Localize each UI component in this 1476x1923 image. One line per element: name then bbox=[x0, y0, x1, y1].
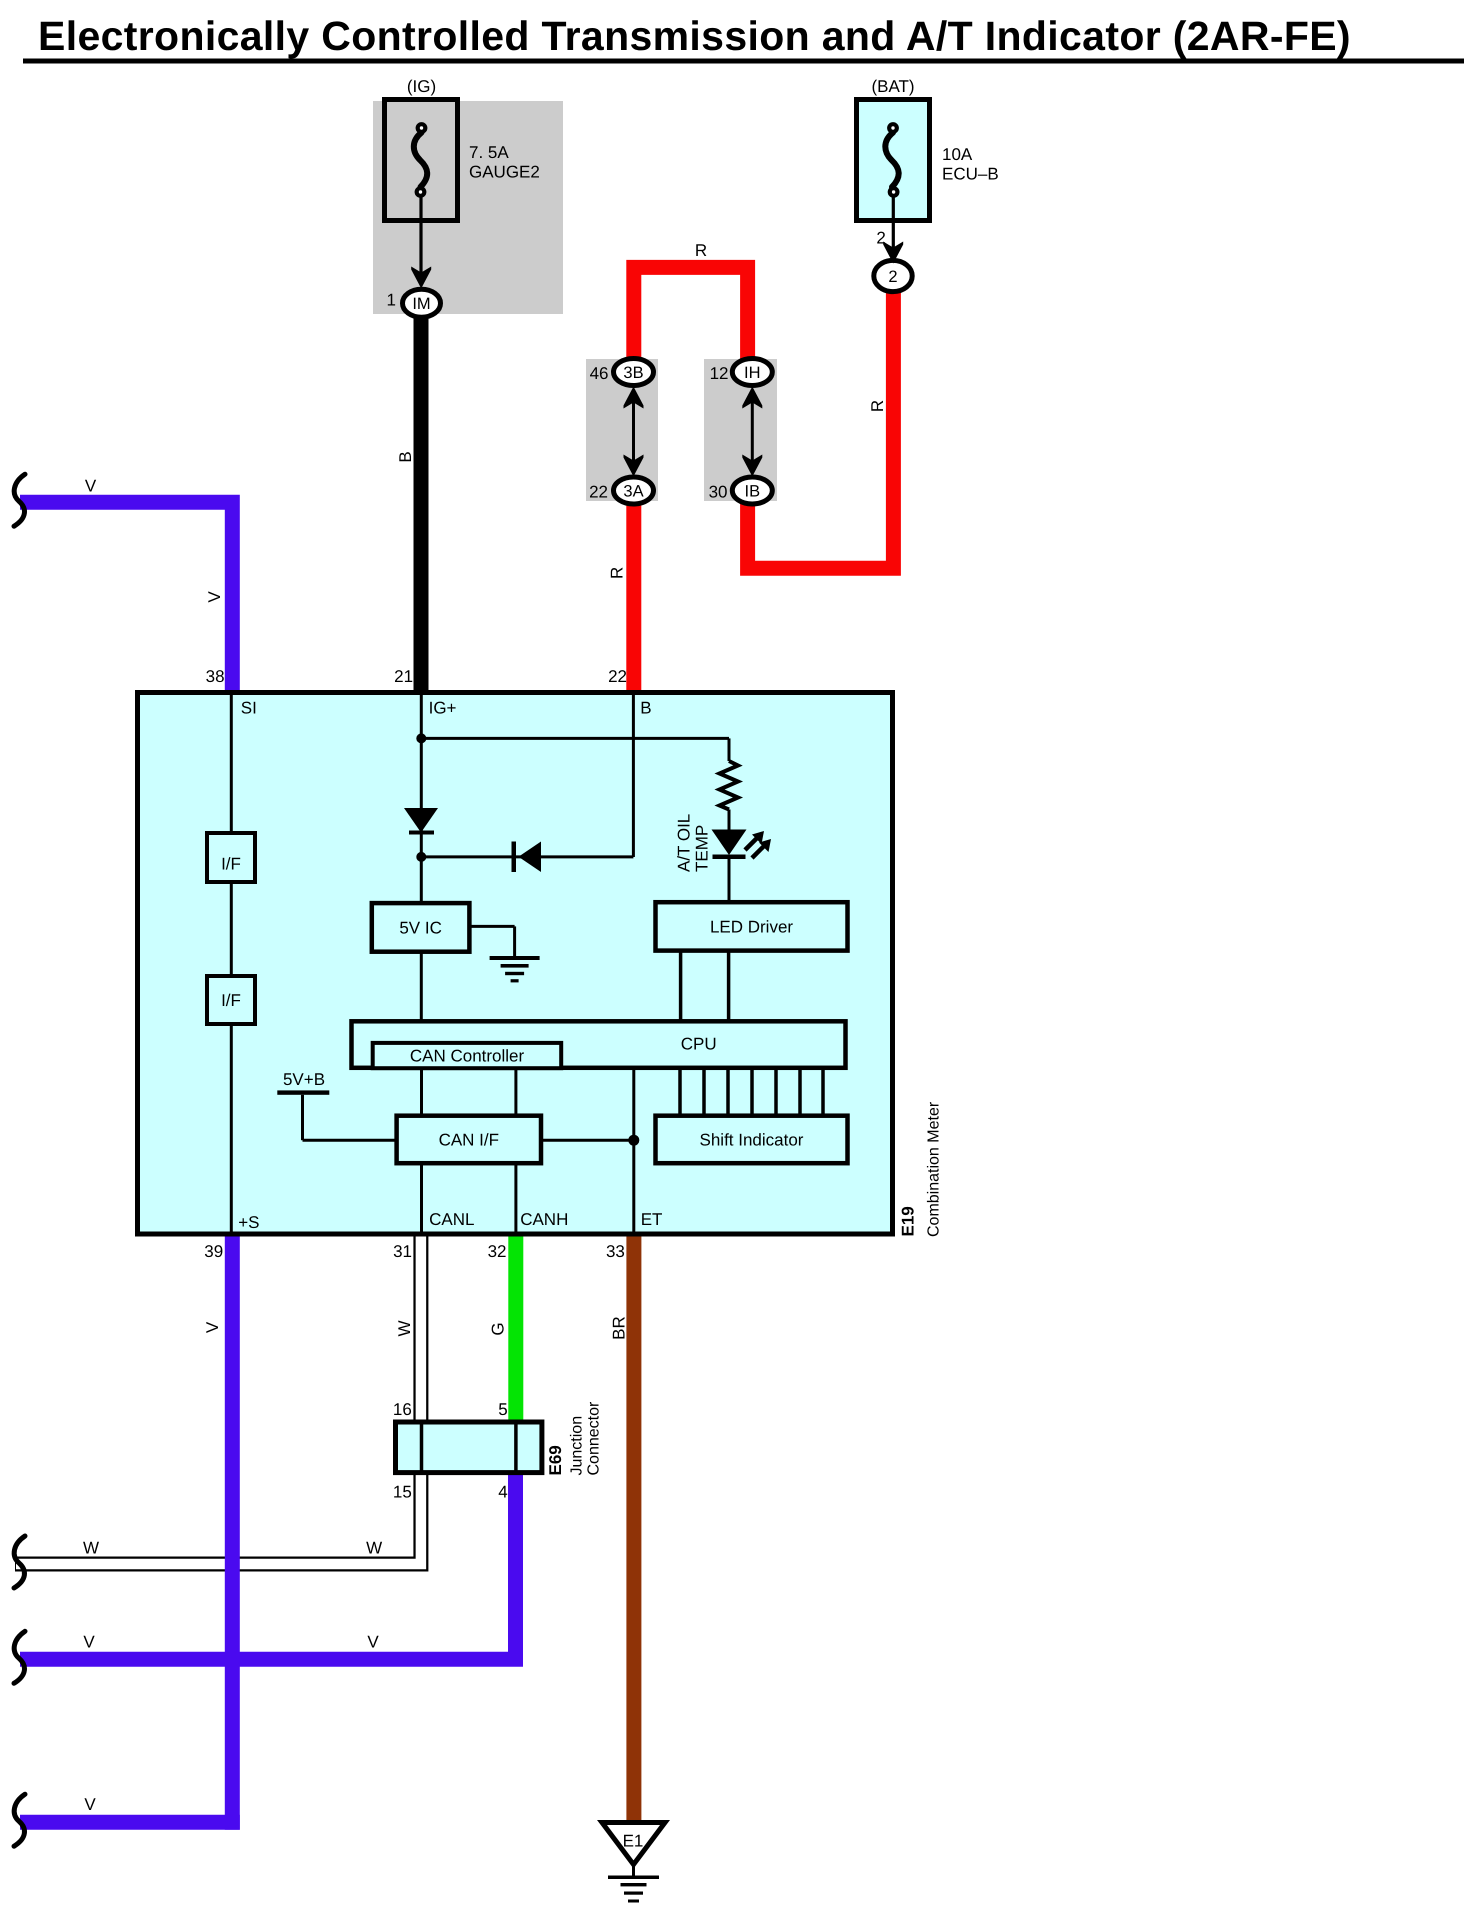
svg-text:2: 2 bbox=[888, 268, 897, 286]
svg-text:SI: SI bbox=[241, 699, 257, 718]
svg-text:CAN Controller: CAN Controller bbox=[410, 1047, 525, 1066]
svg-text:Electronically Controlled Tran: Electronically Controlled Transmission a… bbox=[38, 13, 1351, 59]
svg-text:7. 5A: 7. 5A bbox=[469, 143, 509, 162]
svg-text:16: 16 bbox=[393, 1400, 412, 1419]
svg-text:CAN I/F: CAN I/F bbox=[439, 1131, 499, 1150]
svg-text:15: 15 bbox=[393, 1483, 412, 1502]
svg-text:IG+: IG+ bbox=[429, 699, 457, 718]
svg-text:CANL: CANL bbox=[429, 1210, 474, 1229]
svg-text:22: 22 bbox=[589, 483, 608, 502]
svg-text:B: B bbox=[396, 451, 415, 462]
svg-text:Shift Indicator: Shift Indicator bbox=[700, 1131, 804, 1150]
svg-text:R: R bbox=[608, 567, 627, 579]
svg-text:12: 12 bbox=[710, 364, 729, 383]
svg-text:IM: IM bbox=[412, 295, 430, 313]
svg-text:W: W bbox=[83, 1539, 99, 1558]
svg-text:V: V bbox=[84, 1795, 96, 1814]
svg-text:B: B bbox=[640, 699, 651, 718]
svg-text:32: 32 bbox=[488, 1242, 507, 1261]
svg-text:TEMP: TEMP bbox=[693, 825, 712, 872]
svg-text:LED Driver: LED Driver bbox=[710, 918, 793, 937]
svg-text:(BAT): (BAT) bbox=[871, 77, 914, 96]
svg-text:G: G bbox=[489, 1322, 508, 1335]
svg-text:1: 1 bbox=[387, 291, 396, 310]
svg-text:V: V bbox=[83, 1633, 95, 1652]
svg-text:5V IC: 5V IC bbox=[399, 919, 442, 938]
svg-text:W: W bbox=[366, 1539, 382, 1558]
svg-text:GAUGE2: GAUGE2 bbox=[469, 163, 540, 182]
svg-text:ECU–B: ECU–B bbox=[942, 165, 999, 184]
svg-text:A/T OIL: A/T OIL bbox=[675, 814, 694, 872]
svg-text:(IG): (IG) bbox=[407, 77, 436, 96]
svg-text:IB: IB bbox=[745, 483, 761, 501]
svg-text:21: 21 bbox=[394, 667, 413, 686]
svg-text:22: 22 bbox=[608, 667, 627, 686]
svg-text:R: R bbox=[868, 400, 887, 412]
svg-text:5: 5 bbox=[498, 1400, 507, 1419]
svg-text:W: W bbox=[395, 1320, 414, 1336]
svg-text:BR: BR bbox=[610, 1316, 629, 1340]
svg-text:3A: 3A bbox=[623, 483, 643, 501]
svg-text:V: V bbox=[203, 1321, 222, 1333]
svg-text:E1: E1 bbox=[623, 1832, 644, 1851]
svg-text:33: 33 bbox=[606, 1242, 625, 1261]
svg-text:46: 46 bbox=[590, 364, 609, 383]
svg-text:ET: ET bbox=[641, 1210, 663, 1229]
svg-text:4: 4 bbox=[498, 1483, 507, 1502]
svg-text:V: V bbox=[85, 477, 97, 496]
svg-text:5V+B: 5V+B bbox=[283, 1070, 325, 1089]
svg-text:R: R bbox=[695, 241, 707, 260]
svg-text:Connector: Connector bbox=[586, 1401, 603, 1475]
svg-text:E69: E69 bbox=[546, 1445, 565, 1475]
svg-text:I/F: I/F bbox=[221, 991, 241, 1010]
svg-text:V: V bbox=[205, 591, 224, 603]
svg-text:E19: E19 bbox=[899, 1206, 918, 1236]
svg-text:10A: 10A bbox=[942, 145, 973, 164]
svg-text:3B: 3B bbox=[623, 364, 643, 382]
svg-text:V: V bbox=[367, 1633, 379, 1652]
svg-text:+S: +S bbox=[238, 1213, 259, 1232]
svg-text:IH: IH bbox=[744, 364, 761, 382]
svg-text:I/F: I/F bbox=[221, 855, 241, 874]
svg-text:CANH: CANH bbox=[520, 1210, 568, 1229]
svg-text:Junction: Junction bbox=[569, 1416, 586, 1476]
svg-text:38: 38 bbox=[206, 667, 225, 686]
svg-text:31: 31 bbox=[393, 1242, 412, 1261]
svg-text:CPU: CPU bbox=[681, 1035, 717, 1054]
svg-text:39: 39 bbox=[204, 1242, 223, 1261]
svg-text:30: 30 bbox=[709, 483, 728, 502]
svg-text:Combination Meter: Combination Meter bbox=[926, 1101, 943, 1237]
